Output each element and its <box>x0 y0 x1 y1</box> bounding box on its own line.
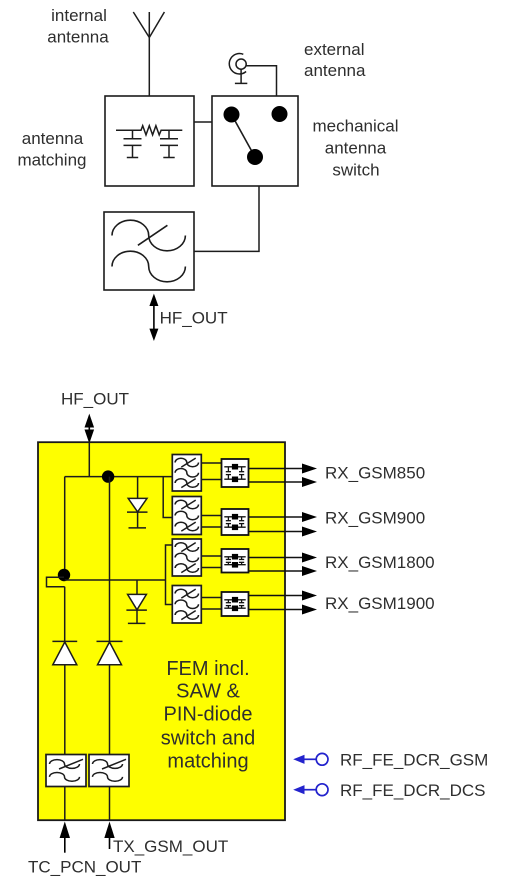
HF_OUT bidirectional arrow (bottom) <box>85 414 95 444</box>
HF_OUT bidirectional arrow (top) <box>149 294 158 341</box>
wire: main bus lower <box>65 579 166 581</box>
band-pass filter F1 <box>172 455 201 492</box>
wire: jog at lower node <box>47 577 65 587</box>
SAW filter S3 <box>222 549 249 573</box>
wire: HF_OUT into block <box>88 442 90 476</box>
band-pass filter F3 <box>172 539 201 576</box>
filter symbol (two waves, top crossed) <box>112 220 185 282</box>
wire: right column down <box>109 477 111 642</box>
svg-text:external: external <box>304 40 364 59</box>
output arrows RX_GSM900 <box>249 512 318 537</box>
wire: TX left column to filter <box>64 665 66 755</box>
wire: left column continues <box>64 587 66 642</box>
svg-text:RX_GSM1900: RX_GSM1900 <box>325 594 435 613</box>
internal antenna symbol <box>133 12 164 96</box>
svg-text:mechanical: mechanical <box>313 117 399 136</box>
TC_PCN_OUT input arrow (up) <box>60 822 70 853</box>
wire: right filter to block edge <box>109 787 111 821</box>
output arrows RX_GSM1900 <box>249 591 318 615</box>
box: antenna matching <box>105 96 194 186</box>
wire: switch to filter <box>194 186 259 251</box>
node junction (lower) <box>58 569 70 581</box>
svg-text:switch: switch <box>332 161 379 180</box>
svg-text:RX_GSM900: RX_GSM900 <box>325 509 425 528</box>
wire: left column upper <box>64 477 66 575</box>
node junction (upper) <box>102 470 114 482</box>
svg-text:PIN-diode: PIN-diode <box>164 704 253 726</box>
wire: branch to RX filters 3-4 <box>166 545 173 605</box>
resistor (matching network) <box>116 126 182 135</box>
wire: left filter to block edge <box>64 787 66 821</box>
svg-text:RF_FE_DCR_GSM: RF_FE_DCR_GSM <box>340 751 488 770</box>
svg-text:RX_GSM1800: RX_GSM1800 <box>325 553 435 572</box>
capacitor C1 (left shunt) <box>124 130 142 157</box>
label: FEM block description <box>161 658 256 773</box>
svg-text:antenna: antenna <box>47 28 109 47</box>
wire: matching to switch <box>194 121 212 123</box>
control input RF_FE_DCR_GSM (blue arrow) <box>293 753 328 765</box>
SAW filter S1 <box>222 459 249 487</box>
svg-text:TX_GSM_OUT: TX_GSM_OUT <box>113 837 228 856</box>
TX low-pass filter (GSM) <box>89 755 129 787</box>
TX_GSM_OUT input arrow (up) <box>104 822 114 850</box>
svg-text:antenna: antenna <box>325 139 387 158</box>
FEM block (yellow) <box>38 442 285 820</box>
svg-text:matching: matching <box>18 151 87 170</box>
output arrows RX_GSM1800 <box>249 553 318 577</box>
PIN diode D4 (series TX right, up) <box>97 641 123 664</box>
box: antenna low-pass filter <box>104 212 194 290</box>
band-pass filter F2 <box>172 497 201 535</box>
band-pass filter F4 <box>172 586 201 624</box>
wires: F2 to SAW S2 <box>201 516 221 528</box>
box: mechanical antenna switch <box>212 96 298 186</box>
svg-text:antenna: antenna <box>22 129 84 148</box>
TX low-pass filter (PCN) <box>46 755 86 787</box>
svg-text:FEM incl.: FEM incl. <box>166 658 249 680</box>
svg-text:RF_FE_DCR_DCS: RF_FE_DCR_DCS <box>340 781 485 800</box>
wire: TX right column to filter <box>109 665 111 755</box>
wires: F3 to SAW S3 <box>201 556 221 568</box>
svg-text:matching: matching <box>167 751 248 773</box>
external antenna symbol <box>229 54 247 84</box>
svg-text:antenna: antenna <box>304 61 366 80</box>
control input RF_FE_DCR_DCS (blue arrow) <box>293 784 328 796</box>
svg-text:SAW &: SAW & <box>176 681 240 703</box>
svg-text:HF_OUT: HF_OUT <box>160 309 228 328</box>
PIN diode D3 (series TX left, up) <box>52 641 77 664</box>
svg-text:internal: internal <box>51 6 107 25</box>
switch contacts <box>224 106 288 165</box>
PIN diode D2 (shunt, down) <box>126 580 146 623</box>
wire: branch to RX filters 1-2 <box>163 477 172 518</box>
SAW filter S2 <box>222 509 249 535</box>
SAW filter S4 <box>222 592 249 616</box>
svg-text:RX_GSM850: RX_GSM850 <box>325 464 425 483</box>
svg-text:TC_PCN_OUT: TC_PCN_OUT <box>28 858 141 877</box>
output arrows RX_GSM850 <box>249 464 318 488</box>
wires: F4 to SAW S4 <box>201 598 221 610</box>
svg-text:switch and: switch and <box>161 728 256 750</box>
capacitor C2 (right shunt) <box>160 130 178 157</box>
wires: F1 to SAW S1 <box>201 463 221 480</box>
PIN diode D1 (shunt, down) <box>127 477 148 528</box>
svg-text:HF_OUT: HF_OUT <box>61 390 129 409</box>
wire: external antenna to switch <box>246 66 276 96</box>
wire: main bus upper <box>65 476 173 478</box>
